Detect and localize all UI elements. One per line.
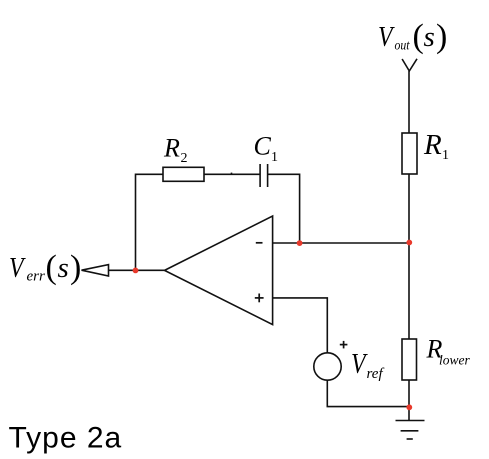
svg-text:1: 1 — [442, 148, 449, 163]
svg-text:C: C — [254, 132, 272, 161]
svg-text:R: R — [423, 129, 442, 161]
svg-text:lower: lower — [439, 353, 470, 368]
svg-text:): ) — [70, 249, 81, 286]
svg-text:(: ( — [46, 249, 57, 286]
svg-text:s: s — [58, 252, 69, 284]
svg-text:ref: ref — [367, 366, 385, 382]
svg-text:s: s — [424, 21, 435, 53]
svg-text:err: err — [27, 269, 45, 285]
svg-text:(: ( — [413, 18, 424, 55]
svg-text:1: 1 — [271, 150, 278, 165]
svg-text:R: R — [163, 134, 180, 163]
svg-text:V: V — [351, 347, 368, 380]
svg-text:): ) — [436, 18, 447, 55]
svg-text:V: V — [378, 20, 395, 53]
svg-text:V: V — [9, 251, 26, 284]
svg-text:2: 2 — [181, 151, 188, 166]
svg-text:Type 2a: Type 2a — [9, 422, 123, 455]
svg-text:out: out — [395, 38, 411, 53]
